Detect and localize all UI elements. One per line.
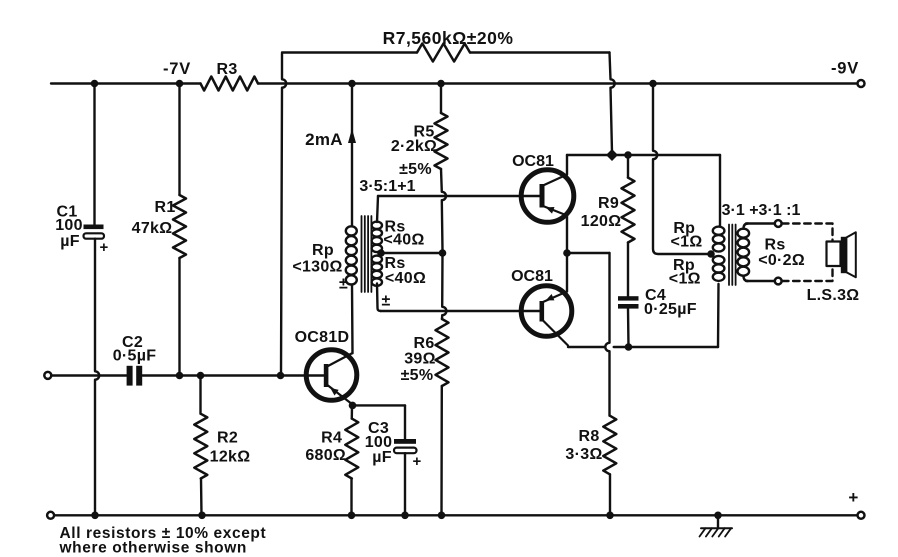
- svg-text:0·5µF: 0·5µF: [113, 347, 157, 364]
- wire R9 to C4: [627, 243, 629, 297]
- svg-text:R7,560kΩ±20%: R7,560kΩ±20%: [383, 28, 514, 48]
- svg-text:+: +: [99, 239, 108, 256]
- svg-text:R4: R4: [321, 430, 342, 447]
- transformer T2 core: [729, 225, 736, 286]
- wire C3 bottom lead: [404, 453, 406, 515]
- inductor T1 primary winding: [346, 226, 357, 284]
- terminal -9V: [858, 80, 865, 87]
- resistor R8: [603, 416, 616, 475]
- label OC81D: [295, 329, 350, 346]
- node R7 to collector-line junction: [606, 149, 618, 161]
- label T1 Rs upper: [383, 219, 424, 249]
- label R9 value: [581, 195, 622, 230]
- wire R4 top lead: [351, 405, 354, 418]
- label C2 value: [113, 334, 157, 365]
- label R8 value: [565, 428, 602, 463]
- svg-text:±: ±: [339, 276, 348, 293]
- node OC81D emitter junction: [349, 402, 357, 410]
- svg-text:where otherwise shown: where otherwise shown: [59, 540, 247, 557]
- ground chassis symbol: [700, 512, 733, 537]
- wire top collector line (to output transformer primary top): [567, 155, 720, 226]
- svg-text:±5%: ±5%: [401, 367, 434, 384]
- label C1 polarity +: [99, 239, 108, 256]
- label T2 Rs value: [758, 237, 805, 269]
- resistor R9: [622, 178, 635, 243]
- label + bottom right: [848, 488, 858, 507]
- wire T2 secondary top lead: [746, 222, 775, 224]
- wire T1 secondary top lead: [377, 196, 378, 222]
- node -7V junction dots on top rail: [91, 80, 184, 88]
- wire C4 bottom lead: [627, 309, 630, 347]
- wire top supply rail (-9V): [51, 82, 858, 84]
- svg-text:<1Ω: <1Ω: [669, 271, 701, 288]
- svg-text:±5%: ±5%: [399, 161, 432, 178]
- wire R7 right vertical (hops -9V rail, to OC81 collector line): [610, 53, 615, 153]
- label R6 value: [401, 335, 436, 384]
- label T2 ratio 3.1+3.1:1: [722, 202, 801, 219]
- wire bottom ground rail: [54, 514, 857, 516]
- label T2 Rp lower: [669, 257, 701, 288]
- inductor T2 secondary winding: [738, 224, 750, 282]
- svg-text:R1: R1: [154, 199, 175, 216]
- wire R1 bottom lead: [178, 258, 180, 376]
- terminal bottom right +: [858, 512, 865, 519]
- wire R5 top lead: [440, 84, 442, 114]
- svg-text:12kΩ: 12kΩ: [210, 449, 251, 466]
- resistor R5: [435, 113, 448, 169]
- node bias centre-tap junction: [439, 249, 447, 257]
- wire R4 bottom lead: [350, 479, 352, 516]
- wire R8 bottom lead: [609, 474, 611, 515]
- wire T1 secondary bottom lead: [377, 284, 381, 312]
- label C3 polarity +: [412, 453, 421, 470]
- wire dashed speaker connection bottom: [782, 266, 833, 281]
- label OC81 top: [512, 153, 554, 170]
- wire T1 primary top lead from rail with 2mA arrow: [348, 84, 356, 226]
- svg-text:47kΩ: 47kΩ: [132, 220, 173, 237]
- svg-text:µF: µF: [372, 449, 392, 466]
- wire R2 top lead: [199, 376, 201, 414]
- wire R2 bottom lead: [200, 479, 203, 516]
- svg-text:100: 100: [55, 217, 83, 234]
- resistor R2: [194, 414, 207, 479]
- node R1 junction on base line: [176, 372, 184, 380]
- wire input line left: [52, 374, 127, 376]
- wire R6 bottom lead: [440, 386, 443, 515]
- inductor T2 primary upper winding: [713, 227, 725, 252]
- wire R9 top lead: [627, 155, 629, 178]
- svg-text:L.S.3Ω: L.S.3Ω: [807, 287, 860, 304]
- wire bottom collector line (to output transformer primary bottom): [568, 284, 719, 347]
- svg-text:-9V: -9V: [831, 60, 859, 78]
- label 2mA: [305, 130, 343, 149]
- transistor Q1 OC81D: [306, 350, 357, 405]
- wire T1 secondary centre tap: [377, 249, 442, 257]
- resistor R7: [417, 44, 470, 62]
- wire top OC81 collector lead: [566, 155, 568, 175]
- svg-text:R2: R2: [217, 430, 238, 447]
- wire R6 top lead (hops base line): [442, 253, 446, 319]
- svg-text:120Ω: 120Ω: [581, 213, 622, 230]
- label C3 value: [365, 420, 393, 466]
- svg-text:OC81D: OC81D: [295, 329, 350, 346]
- label T2 Rp upper: [671, 220, 703, 251]
- wire R8 top lead (hops bottom collector line): [605, 253, 609, 416]
- wire T2 secondary bottom lead: [746, 280, 775, 282]
- capacitor C1: [84, 225, 105, 239]
- wire R7 left vertical (base of OC81D up to R7, hops -9V rail): [281, 54, 286, 376]
- resistor R1: [173, 195, 186, 258]
- wire T1 primary bottom lead (to OC81D collector): [351, 285, 354, 353]
- node C4 bottom junction: [625, 343, 633, 351]
- svg-text:R3: R3: [216, 61, 237, 78]
- node T2 centre tap: [707, 250, 715, 258]
- label T1 Rp value: [292, 242, 348, 293]
- terminal secondary top: [775, 220, 782, 227]
- resistor R6: [436, 319, 449, 386]
- svg-text:39Ω: 39Ω: [404, 351, 436, 368]
- svg-text:µF: µF: [60, 233, 80, 250]
- svg-text:<0·2Ω: <0·2Ω: [758, 252, 805, 269]
- resistor R4: [345, 419, 358, 479]
- svg-text:±: ±: [381, 293, 390, 310]
- label -7V: [163, 60, 191, 78]
- label T1 secondary polarity ±: [381, 293, 390, 310]
- node bottom rail junctions: [91, 512, 614, 520]
- wire R5 bottom lead (hops base line): [441, 169, 446, 250]
- label T1 ratio 3.5:1+1: [359, 178, 415, 195]
- label R3: [216, 61, 237, 78]
- wire -9V centre-tap feed (hops collector line): [653, 84, 707, 255]
- node R7 junction on base line: [277, 372, 285, 380]
- svg-text:<40Ω: <40Ω: [385, 270, 426, 287]
- wire top OC81 emitter lead: [566, 216, 568, 254]
- wire input line right (to OC81D base): [143, 374, 324, 376]
- label R1 value: [132, 199, 176, 237]
- svg-text:680Ω: 680Ω: [305, 447, 346, 464]
- svg-text:R6: R6: [413, 335, 434, 352]
- node R2 junction on base line: [197, 372, 205, 380]
- node R9 top junction: [624, 151, 632, 159]
- label L.S.3Ω: [807, 287, 860, 304]
- wire dashed speaker connection top: [782, 224, 833, 242]
- wire R1 top lead: [178, 84, 180, 196]
- transistor Q2 OC81 top: [521, 170, 574, 223]
- svg-text:OC81: OC81: [512, 153, 554, 170]
- svg-text:3·1 +3·1 :1: 3·1 +3·1 :1: [722, 202, 801, 219]
- resistor R3: [201, 77, 259, 91]
- svg-text:2mA: 2mA: [305, 130, 343, 149]
- speaker LS: [827, 232, 856, 277]
- svg-text:<40Ω: <40Ω: [383, 231, 424, 248]
- wire R7 top horizontal right: [470, 51, 610, 53]
- node shared emitter junction: [563, 249, 571, 257]
- wire C1 top lead: [93, 84, 95, 226]
- wire bottom OC81 emitter lead: [566, 253, 568, 292]
- svg-text:3·3Ω: 3·3Ω: [565, 446, 602, 463]
- wire base of bottom OC81: [381, 310, 540, 312]
- capacitor C4: [618, 296, 639, 308]
- svg-text:OC81: OC81: [511, 268, 553, 285]
- inductor T1 secondary upper winding: [372, 222, 382, 252]
- svg-text:R8: R8: [578, 428, 599, 445]
- label C4 value: [644, 287, 697, 318]
- label C1 value: [55, 204, 83, 250]
- note all resistors tolerance: [59, 525, 267, 557]
- terminal secondary bottom: [775, 278, 782, 285]
- transformer T1 core: [362, 216, 372, 292]
- svg-text:2·2kΩ: 2·2kΩ: [391, 138, 437, 155]
- svg-text:0·25µF: 0·25µF: [644, 301, 697, 318]
- svg-text:R9: R9: [598, 195, 619, 212]
- capacitor C2: [127, 366, 143, 386]
- label R4 value: [305, 430, 346, 465]
- wire C3 top lead: [353, 405, 406, 439]
- svg-text:+: +: [412, 453, 421, 470]
- label T1 Rs lower: [384, 255, 426, 287]
- inductor T1 secondary lower winding: [372, 256, 382, 286]
- terminal bottom left: [47, 512, 54, 519]
- wire R7 top horizontal left: [282, 51, 417, 53]
- svg-text:+: +: [848, 488, 858, 507]
- label OC81 bottom: [511, 268, 553, 285]
- svg-text:<1Ω: <1Ω: [671, 234, 703, 251]
- label R2 value: [210, 430, 251, 466]
- label R7 value: [383, 28, 514, 48]
- svg-text:<130Ω: <130Ω: [292, 259, 342, 276]
- node top rail junction dots right side: [348, 80, 657, 88]
- inductor T2 primary lower winding: [713, 256, 725, 281]
- label R5 value: [391, 124, 437, 179]
- wire base of top OC81: [378, 195, 540, 197]
- capacitor C3: [394, 439, 417, 453]
- svg-text:3·5:1+1: 3·5:1+1: [359, 178, 415, 195]
- transistor Q3 OC81 bottom: [521, 286, 572, 346]
- terminal input: [44, 372, 51, 379]
- wire shared emitter to R8: [567, 252, 610, 254]
- svg-text:Rp: Rp: [312, 242, 334, 259]
- wire C1 bottom lead (hops input line): [95, 239, 99, 516]
- svg-text:-7V: -7V: [163, 60, 191, 78]
- label -9V: [831, 60, 859, 78]
